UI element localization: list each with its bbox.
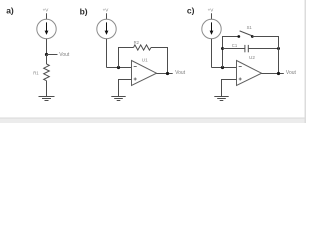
node output junction (c): [277, 72, 280, 75]
resistor R2: [134, 45, 152, 50]
wire to inverting input (c): [212, 67, 237, 69]
wire feedback top left (b): [118, 47, 134, 49]
wire capacitor branch left (c): [223, 48, 245, 50]
svg-text:U1: U1: [142, 58, 148, 63]
wire to inverting input (b): [107, 67, 132, 69]
current source I3 (c): [202, 19, 221, 38]
wire switch branch right (c): [252, 36, 279, 38]
node feedback tee (b): [117, 66, 120, 69]
node output junction (b): [166, 72, 169, 75]
svg-text:a): a): [6, 6, 14, 16]
wire feedback top right (b): [151, 47, 168, 49]
switch S1: [237, 31, 253, 38]
svg-text:b): b): [80, 6, 88, 16]
ground (c): [214, 97, 228, 101]
wire feedback right vertical (c): [278, 37, 280, 74]
op-amp U2: [237, 61, 262, 86]
wire feedback left vertical (b): [118, 47, 120, 68]
wire switch branch left (c): [223, 36, 239, 38]
svg-text:R2: R2: [134, 40, 140, 45]
op-amp U1: [132, 61, 157, 86]
node Vout junction (a): [45, 53, 48, 56]
wire non-inverting input (c): [222, 80, 237, 97]
node capacitor tee left (c): [221, 47, 224, 50]
svg-text:c): c): [187, 6, 195, 16]
wire current source to Vout node (a): [46, 39, 48, 55]
wire node to R1 (a): [46, 55, 48, 65]
resistor R1: [44, 64, 50, 81]
node capacitor tee right (c): [277, 47, 280, 50]
wire +V stub (b): [106, 13, 108, 19]
svg-text:+V: +V: [208, 7, 215, 12]
wire +V stub (a): [46, 13, 48, 19]
svg-text:Vout: Vout: [59, 52, 70, 58]
capacitor C1: [245, 45, 248, 52]
wire output (b): [156, 73, 172, 75]
svg-text:Vout: Vout: [286, 70, 297, 76]
wire Vout tap (a): [47, 54, 58, 56]
current source I2 (b): [97, 19, 116, 38]
wire current source down (c): [211, 39, 213, 68]
wire feedback right vertical (b): [167, 48, 169, 74]
wire capacitor branch right (c): [248, 48, 278, 50]
wire non-inverting input (b): [119, 80, 132, 97]
wire R1 to ground (a): [46, 81, 48, 96]
node feedback tee (c): [221, 66, 224, 69]
wire current source down (b): [106, 39, 108, 68]
svg-text:S1: S1: [247, 25, 253, 30]
svg-text:U2: U2: [249, 55, 255, 60]
svg-text:C1: C1: [232, 43, 238, 48]
wire +V stub (c): [211, 13, 213, 19]
svg-text:Vout: Vout: [175, 70, 186, 76]
wire output (c): [261, 73, 284, 75]
ground (a): [39, 97, 55, 101]
current source I1 (a): [37, 19, 56, 38]
ground (b): [111, 97, 125, 101]
svg-text:+V: +V: [103, 7, 110, 12]
svg-text:+V: +V: [43, 7, 50, 12]
wire feedback left vertical (c): [222, 36, 224, 68]
svg-text:R1: R1: [33, 71, 39, 76]
